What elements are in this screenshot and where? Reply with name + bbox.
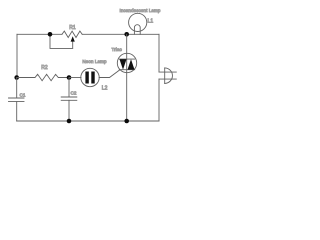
svg-text:L2: L2: [102, 86, 108, 92]
neon lamp L2 right electrode: [91, 72, 94, 84]
capacitor C2 top plate: [61, 96, 77, 98]
capacitor C1 top plate: [9, 97, 25, 99]
AC plug body semicircle: [165, 68, 173, 84]
wire left rail to C1: [16, 78, 18, 99]
incandescent lamp L1 filament loop: [134, 25, 140, 35]
wire triac vertical lead: [126, 34, 128, 121]
AC plug body flat face: [164, 68, 166, 84]
svg-text:C1: C1: [20, 92, 26, 97]
svg-text:R1: R1: [69, 25, 76, 31]
svg-text:Incandescent Lamp: Incandescent Lamp: [120, 8, 161, 13]
capacitor C1 bottom plate: [9, 101, 25, 103]
node junction at R1 left: [48, 32, 53, 37]
svg-text:R2: R2: [41, 65, 48, 71]
wire left rail upper: [16, 34, 18, 77]
wire right rail lower: [158, 79, 160, 121]
wire neon to triac gate: [99, 70, 119, 77]
wire C2 branch upper: [68, 78, 70, 98]
wire right rail upper: [158, 34, 160, 72]
resistor R2: [17, 74, 69, 80]
wire top-left horizontal: [17, 33, 62, 35]
wire bottom horizontal: [17, 120, 159, 122]
node junction C2 bottom: [67, 119, 72, 124]
wire top horizontal to lamp branch: [82, 33, 159, 35]
svg-text:Triac: Triac: [112, 47, 123, 52]
node junction above triac: [124, 32, 129, 37]
node junction triac bottom: [124, 119, 129, 124]
wire neon lamp left lead: [69, 77, 81, 79]
triac right triangle: [128, 59, 135, 69]
node junction R2 left: [14, 75, 19, 80]
incandescent lamp L1 bulb circle: [129, 13, 147, 31]
neon lamp L2 left electrode: [85, 72, 88, 84]
triac circle: [117, 53, 136, 72]
triac left triangle: [120, 59, 127, 69]
wire C2 to bottom rail: [68, 100, 70, 121]
svg-text:L1: L1: [148, 19, 154, 25]
wire C1 to bottom rail: [16, 102, 18, 121]
triac top bar: [119, 58, 134, 60]
R1 wiper arrow: [72, 41, 74, 49]
AC plug prong upper: [159, 71, 176, 73]
AC plug prong lower: [159, 78, 176, 80]
triac bottom bar: [119, 69, 134, 71]
capacitor C2 bottom plate: [61, 99, 77, 101]
resistor R1 (potentiometer body): [62, 31, 82, 37]
node junction R2 right / C2 / neon: [67, 75, 72, 80]
wire R1 wiper return loop: [50, 34, 73, 48]
svg-text:C2: C2: [71, 90, 77, 95]
svg-text:Neon Lamp: Neon Lamp: [82, 59, 107, 64]
neon lamp L2 envelope circle: [81, 68, 99, 86]
